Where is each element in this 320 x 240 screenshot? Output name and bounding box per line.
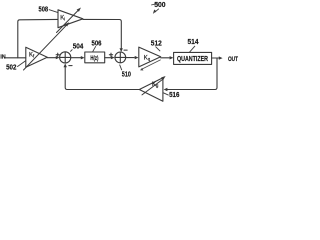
op-amp K_i amplifier 508 triangle	[58, 10, 83, 28]
svg-text:506: 506	[92, 41, 102, 48]
arrowhead into summer 504 from bottom	[64, 63, 67, 67]
arrowhead into K_q from left	[135, 56, 139, 59]
summer 510 internal cross	[115, 52, 126, 63]
leader line for 514	[190, 46, 196, 52]
wire Kg output to bottom-left corner and up into summer 504	[65, 65, 139, 89]
leader line for 504	[70, 49, 72, 51]
wire Kq to quantizer	[161, 57, 172, 59]
arrowhead into quantizer from left	[170, 56, 174, 59]
leader line for 506	[93, 46, 96, 52]
wire H(z) to summer 510	[105, 57, 113, 59]
summer node 504 circle	[60, 52, 71, 63]
arrowhead into H(z) from left	[81, 56, 85, 59]
arrowhead into summer 510 from left	[111, 56, 115, 59]
wire IN line to Kf input	[6, 57, 26, 59]
arrowhead into summer 504 from left	[56, 56, 60, 59]
plus sign at summer 504 left input	[56, 53, 59, 56]
arrowhead into summer 510 from top	[120, 48, 123, 52]
wire quantizer to OUT	[212, 57, 220, 59]
arrowhead of K_i variable arrow	[77, 8, 81, 12]
svg-text:512: 512	[151, 41, 162, 48]
pointer arrow below K_q toward label 510	[141, 60, 160, 70]
svg-text:500: 500	[154, 2, 165, 9]
quantizer box 514	[174, 52, 212, 64]
variable gain arrow through K_f 502	[24, 24, 68, 70]
arrowhead of OUT	[219, 56, 223, 59]
minus sign at summer 510 top input	[124, 49, 127, 51]
summer node 510 circle	[115, 52, 126, 63]
arrowhead of pointer below K_q	[140, 68, 143, 71]
svg-text:QUANTIZER: QUANTIZER	[177, 56, 208, 63]
leader line for 510	[120, 65, 122, 71]
leader line for 512	[156, 47, 161, 52]
minus sign at summer 504 bottom input	[69, 65, 72, 67]
H(z) loop filter box 506	[85, 52, 105, 63]
variable gain arrow through K_g 516	[142, 79, 163, 95]
svg-text:516: 516	[169, 92, 179, 99]
wire feedforward branch up from IN node	[18, 19, 58, 57]
svg-text:Kg: Kg	[152, 82, 159, 88]
svg-text:Kq: Kq	[144, 56, 151, 62]
svg-text:OUT: OUT	[228, 56, 238, 63]
wire summer 510 to Kq	[126, 57, 135, 59]
arrowhead of K_g variable arrow	[161, 76, 166, 80]
wire summer 504 to H(z)	[71, 57, 82, 59]
svg-text:Ki: Ki	[60, 15, 65, 21]
wire Ki output to corner and down into summer 510	[83, 19, 121, 50]
plus sign at summer 510 left input	[109, 53, 112, 56]
svg-text:510: 510	[122, 72, 131, 79]
leader line for 516	[163, 93, 168, 95]
pointer line of 500	[155, 9, 159, 13]
op-amp K_g amplifier 516 triangle (points left)	[139, 78, 163, 102]
wire Kf output to summer 504	[47, 57, 56, 59]
svg-text:508: 508	[39, 6, 49, 13]
op-amp K_f amplifier 502 triangle	[26, 47, 48, 67]
svg-text:502: 502	[6, 65, 16, 72]
op-amp K_q amplifier 512 triangle	[139, 47, 161, 67]
arrowhead of 500 pointer	[153, 10, 157, 14]
strike line through 500	[151, 3, 157, 5]
wire feedback tap down from output node	[166, 58, 217, 90]
leader line for 508	[49, 10, 58, 13]
svg-text:IN: IN	[0, 55, 5, 61]
leader line for 502	[17, 61, 26, 67]
summer 504 internal cross	[60, 52, 71, 63]
arrowhead of K_f variable arrow	[65, 22, 69, 26]
svg-text:504: 504	[73, 44, 84, 51]
arrowhead into K_g from right	[164, 88, 168, 91]
svg-text:H(z): H(z)	[90, 55, 98, 62]
svg-text:514: 514	[188, 39, 199, 46]
svg-text:Kf: Kf	[29, 53, 35, 59]
variable gain arrow through K_i 508	[57, 9, 80, 33]
